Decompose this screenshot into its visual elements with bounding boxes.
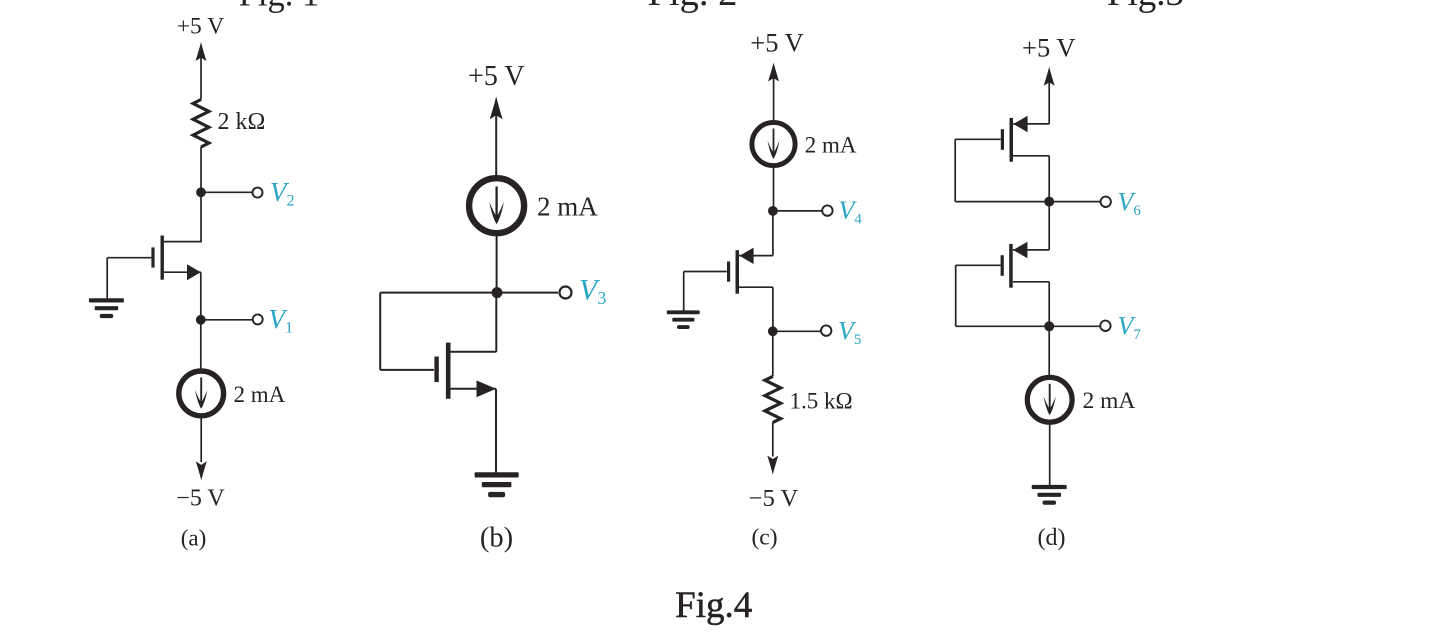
Q5 source arrow (d) — [1013, 242, 1027, 258]
node V6 (d) — [1044, 197, 1054, 207]
wire current source to ground (d) — [1049, 422, 1051, 485]
svg-text:+5 V: +5 V — [1022, 33, 1075, 63]
svg-text:Fig.3: Fig.3 — [1107, 0, 1184, 14]
source arrow (b) — [477, 380, 497, 397]
svg-text:2 mA: 2 mA — [1083, 388, 1136, 414]
current source I4 2 mA (d): circle — [1027, 377, 1072, 422]
current source I1 2 mA (a): arrow — [200, 377, 202, 404]
svg-text:V6: V6 — [1118, 188, 1142, 220]
wire node V1 to terminal (a) — [201, 319, 253, 321]
circuit (c) — [667, 28, 863, 551]
svg-text:+5 V: +5 V — [750, 28, 803, 58]
supply arrow up (b) — [490, 96, 503, 119]
wire node V3 to terminal (b) — [497, 292, 558, 294]
wire +5V lead (b) — [495, 115, 497, 178]
wire Q5 gate lead (d) — [956, 264, 1001, 266]
wire drain up to node V3 (b) — [495, 293, 497, 352]
supply arrow down (a) — [196, 461, 207, 480]
terminal V2 (a) — [253, 188, 263, 198]
current source I2 2 mA (b): circle — [469, 178, 524, 233]
wire Q4 gate lead (d) — [955, 138, 1001, 140]
mosfet Q4 gate bar (d) — [1001, 129, 1004, 150]
terminal V5 (c) — [821, 325, 831, 335]
supply arrow down (c) — [767, 456, 778, 475]
svg-text:Fig. 2: Fig. 2 — [648, 0, 738, 14]
wire gate to ground (c) — [683, 272, 685, 311]
wire Q4 source lead (d) — [1013, 123, 1049, 125]
resistor R2 1.5 kOhm (c) — [765, 376, 781, 422]
circuit (b) — [380, 61, 606, 554]
mosfet Q4 channel bar (d) — [1010, 118, 1014, 162]
wire node V4 down (c) — [772, 211, 774, 256]
svg-text:Fig. 1: Fig. 1 — [239, 0, 320, 14]
Q4 source arrow (d) — [1013, 116, 1027, 132]
wire gate to ground (a) — [106, 258, 108, 299]
wire node V6 down to Q5 source (d) — [1048, 202, 1050, 250]
wire source lead (a) — [164, 271, 201, 273]
wire node V7 to terminal (d) — [1049, 325, 1100, 327]
wire gate lead (a) — [107, 257, 151, 259]
svg-text:+5 V: +5 V — [177, 14, 224, 40]
node V2 (a) — [196, 187, 206, 197]
svg-text:(d): (d) — [1038, 525, 1066, 551]
node V3 (b) — [492, 287, 503, 298]
wire source down to node V1 (a) — [200, 272, 202, 320]
svg-text:Fig.4: Fig.4 — [675, 585, 752, 626]
current source I3 2 mA (c): arrow — [773, 129, 775, 155]
wire Q4 gate feedback down (d) — [954, 139, 956, 201]
current source I2 2 mA (b): arrow — [495, 187, 497, 219]
svg-text:−5 V: −5 V — [176, 486, 225, 512]
wire drain lead (a) — [163, 241, 202, 243]
mosfet Q2 channel bar (b) — [446, 343, 451, 399]
wire Q5 source lead (d) — [1013, 249, 1049, 251]
wire node V1 to current source (a) — [200, 320, 202, 371]
wire drain down to node V5 (c) — [772, 287, 774, 331]
wire drain lead (c) — [739, 286, 773, 288]
wire Q4 drain lead (d) — [1013, 155, 1049, 157]
wire +5V lead (a) — [200, 58, 202, 100]
wire current source to -5V (a) — [200, 416, 202, 462]
mosfet Q3 channel bar (c) — [736, 250, 740, 294]
terminal V6 (d) — [1101, 197, 1111, 207]
node V5 (c) — [768, 326, 778, 336]
wire gate lead (c) — [684, 271, 727, 273]
svg-text:(c): (c) — [751, 525, 777, 551]
mosfet Q2 gate bar (b) — [434, 357, 438, 383]
wire source down to ground (b) — [495, 389, 497, 473]
wire Q5 feedback to node V7 (d) — [956, 325, 1049, 327]
svg-text:2 mA: 2 mA — [805, 133, 857, 158]
supply arrow up (d) — [1044, 67, 1055, 86]
svg-text:(b): (b) — [480, 523, 513, 554]
wire +5V lead (c) — [773, 78, 775, 122]
wire source lead (c) — [739, 255, 773, 257]
svg-text:V1: V1 — [269, 304, 294, 337]
svg-text:V5: V5 — [838, 317, 861, 349]
ground bottom ground (d) — [1032, 485, 1067, 505]
wire gate lead (b) — [380, 369, 434, 371]
wire Q5 drain lead (d) — [1013, 281, 1049, 283]
svg-text:V2: V2 — [270, 177, 295, 210]
mosfet Q3 gate bar (c) — [727, 262, 730, 282]
terminal V1 (a) — [253, 314, 263, 324]
terminal V4 (c) — [822, 205, 832, 215]
terminal V7 (d) — [1100, 321, 1110, 331]
ground gate ground (a) — [89, 298, 124, 318]
wire node V7 to current source (d) — [1048, 326, 1050, 377]
node V4 (c) — [768, 206, 778, 216]
current source I3 2 mA (c): circle — [752, 122, 795, 165]
wire feedback down (b) — [379, 293, 381, 370]
ground gate ground (c) — [667, 310, 700, 329]
mosfet Q1 channel bar (a) — [161, 236, 164, 280]
svg-text:−5 V: −5 V — [749, 485, 799, 512]
svg-text:2 mA: 2 mA — [234, 382, 286, 407]
circuit (a) — [89, 14, 295, 551]
wire Q4 feedback to node V6 (d) — [955, 201, 1049, 203]
svg-text:V4: V4 — [839, 196, 863, 228]
svg-text:+5 V: +5 V — [468, 61, 525, 92]
node V7 (d) — [1044, 321, 1054, 331]
svg-text:(a): (a) — [181, 526, 207, 551]
svg-text:2 kΩ: 2 kΩ — [218, 109, 266, 135]
wire resistor to node V2 (a) — [200, 147, 202, 192]
supply arrow up (a) — [196, 42, 207, 61]
mosfet Q5 channel bar (d) — [1009, 244, 1013, 288]
mosfet Q5 gate bar (d) — [1001, 255, 1004, 276]
mosfet Q1 gate bar (a) — [151, 247, 154, 267]
wire current source to node V3 (b) — [496, 234, 498, 293]
resistor R1 2 kOhm (a) — [193, 100, 209, 148]
wire node V5 to terminal (c) — [773, 330, 821, 332]
ground source ground (b) — [475, 472, 519, 497]
svg-text:V7: V7 — [1118, 312, 1142, 344]
wire resistor to -5V (c) — [772, 422, 774, 456]
wire node V2 down to drain (a) — [200, 192, 202, 241]
svg-text:1.5 kΩ: 1.5 kΩ — [790, 389, 853, 414]
wire node V3 to gate feedback left (b) — [380, 292, 496, 294]
svg-text:V3: V3 — [579, 274, 606, 309]
wire current source to node V4 (c) — [773, 166, 775, 211]
wire node V6 to terminal (d) — [1049, 201, 1100, 203]
wire +5V lead (d) — [1048, 83, 1050, 124]
wire Q5 gate feedback down (d) — [955, 265, 957, 326]
terminal V3 (b) — [560, 287, 572, 299]
wire source lead (b) — [450, 388, 496, 390]
wire node V5 to resistor (c) — [772, 331, 774, 376]
current source I1 2 mA (a): circle — [179, 371, 224, 416]
source arrow (c) — [739, 248, 753, 264]
source arrow (a) — [187, 264, 201, 280]
wire node V4 to terminal (c) — [774, 210, 823, 212]
supply arrow up (c) — [768, 63, 779, 82]
node V1 (a) — [196, 315, 206, 325]
wire Q5 drain down to node V7 (d) — [1048, 282, 1050, 327]
wire Q4 drain down to node V6 (d) — [1048, 156, 1050, 202]
svg-text:2 mA: 2 mA — [537, 192, 598, 222]
current source I4 2 mA (d): arrow — [1049, 384, 1051, 411]
wire drain lead (b) — [450, 351, 496, 353]
circuit (d) — [955, 33, 1141, 552]
wire node V2 to terminal (a) — [201, 191, 252, 193]
